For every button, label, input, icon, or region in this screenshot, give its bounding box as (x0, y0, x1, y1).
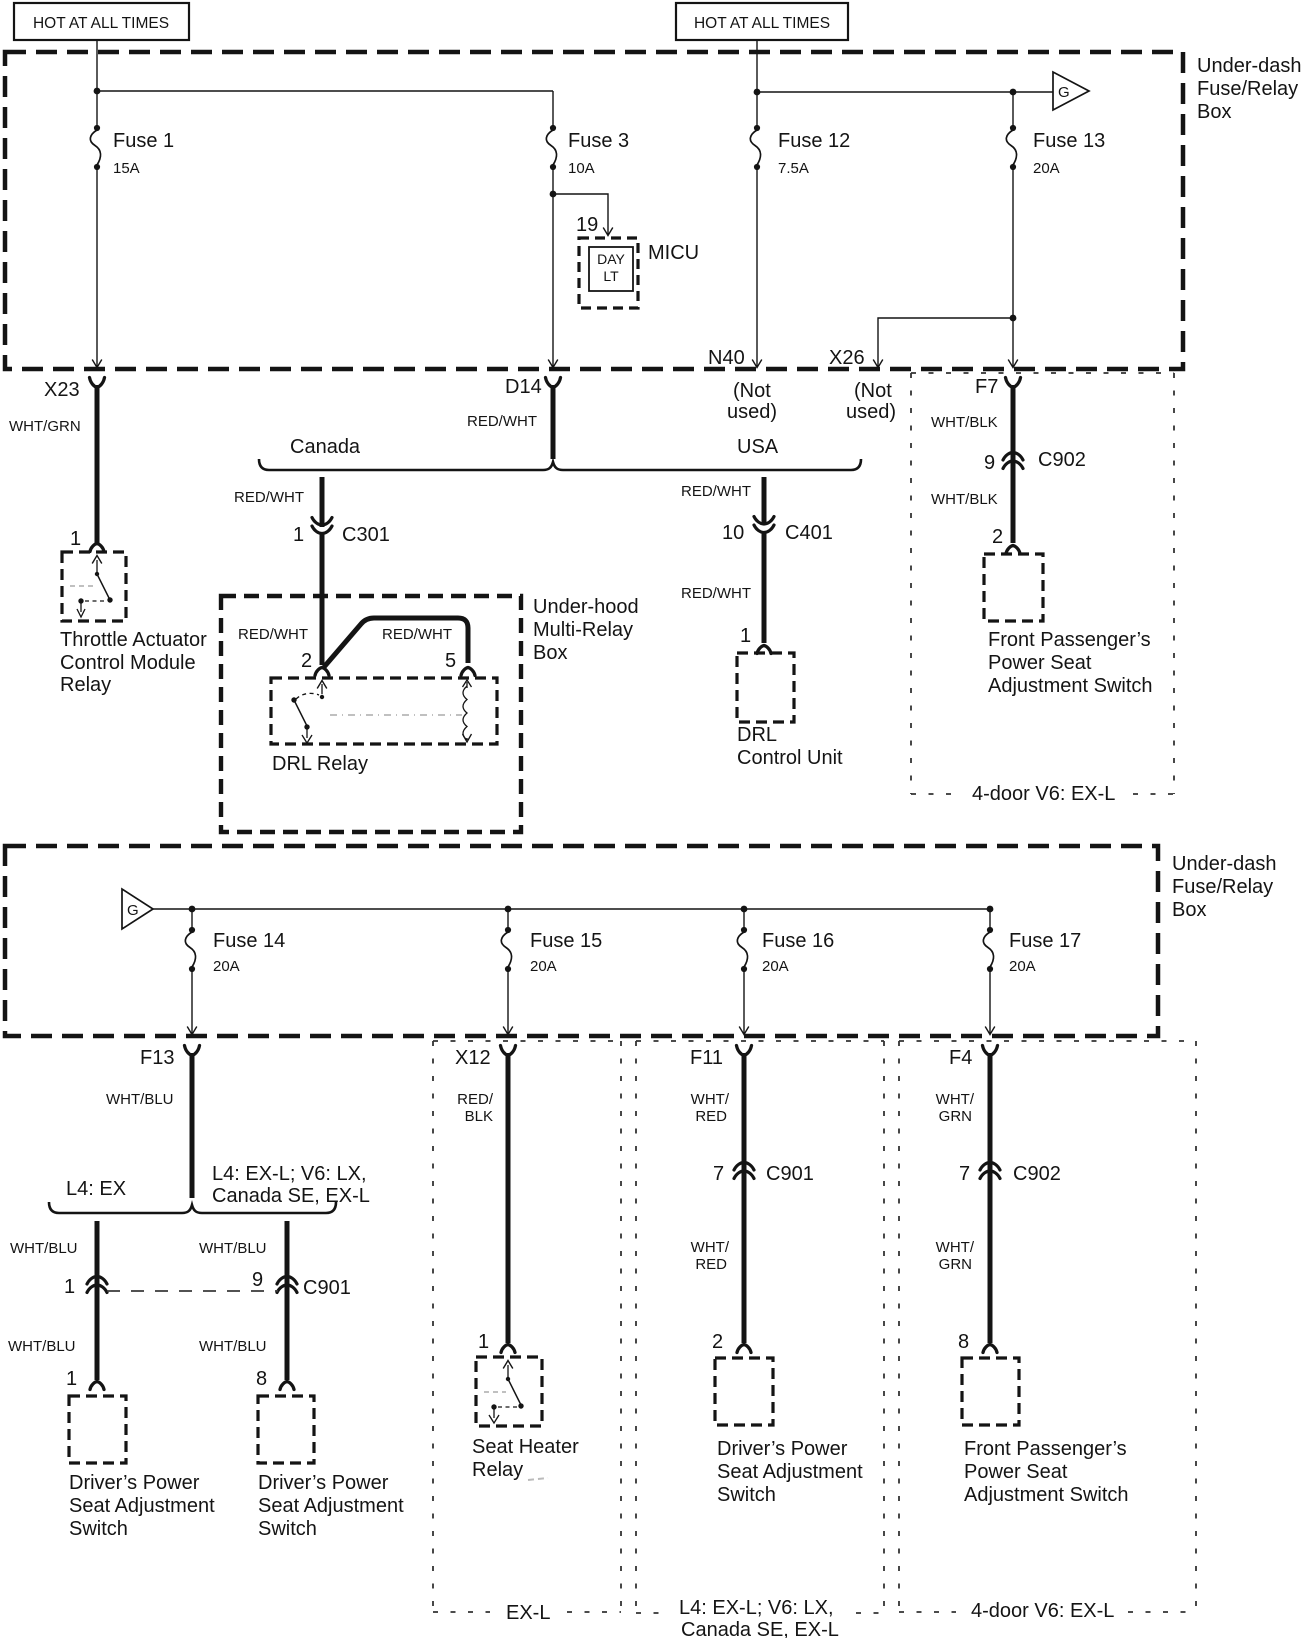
svg-text:Adjustment Switch: Adjustment Switch (988, 675, 1153, 697)
wire WHT/BLU to driver seat switch (left) (95, 1279, 100, 1380)
svg-text:Fuse 1: Fuse 1 (113, 130, 174, 152)
wire WHT/RED to driver seat switch (742, 1165, 747, 1343)
svg-text:WHT/BLU: WHT/BLU (199, 1338, 267, 1355)
fuse Fuse 1 15A (90, 125, 174, 177)
svg-text:19: 19 (576, 214, 598, 236)
svg-text:Canada SE, EX-L: Canada SE, EX-L (681, 1619, 839, 1638)
svg-text:Relay: Relay (472, 1459, 523, 1481)
variant box 4-door V6: EX-L (top right) (911, 373, 1174, 794)
wire jumper pin2 to pin5 (324, 618, 468, 667)
svg-text:Fuse 15: Fuse 15 (530, 930, 602, 952)
svg-text:WHT/BLU: WHT/BLU (8, 1338, 76, 1355)
svg-text:L4: EX-L; V6: LX,: L4: EX-L; V6: LX, (212, 1163, 367, 1185)
svg-text:(Not: (Not (854, 380, 892, 402)
Driver's Power Seat Adjustment Switch box (middle) (258, 1396, 314, 1463)
svg-text:10: 10 (722, 522, 744, 544)
svg-text:DRL: DRL (737, 724, 777, 746)
DRL Control Unit box (737, 653, 794, 722)
wire branch to MICU pin 19 (553, 194, 608, 229)
junction dots (189, 906, 196, 913)
svg-text:7: 7 (959, 1163, 970, 1185)
wire below Fuse 16 (743, 969, 745, 1034)
svg-text:WHT/: WHT/ (691, 1091, 730, 1108)
wire USA branch RED/WHT (762, 477, 767, 525)
svg-text:X23: X23 (44, 379, 80, 401)
svg-text:X12: X12 (455, 1047, 491, 1069)
svg-text:GRN: GRN (939, 1108, 972, 1125)
connector G triangle (box 2) (122, 889, 153, 929)
svg-text:C902: C902 (1038, 449, 1086, 471)
svg-text:RED: RED (695, 1256, 727, 1273)
svg-text:Seat Adjustment: Seat Adjustment (258, 1495, 404, 1517)
variant box L4: EX-L; V6: LX, Canada SE, EX-L (F11) (636, 1041, 884, 1613)
svg-text:Fuse 3: Fuse 3 (568, 130, 629, 152)
svg-text:20A: 20A (1033, 160, 1060, 177)
svg-text:Seat Adjustment: Seat Adjustment (69, 1495, 215, 1517)
wire WHT/GRN F4 to C902 (988, 1053, 993, 1167)
svg-text:8: 8 (958, 1331, 969, 1353)
svg-text:WHT/: WHT/ (691, 1239, 730, 1256)
svg-text:2: 2 (992, 526, 1003, 548)
svg-text:RED/WHT: RED/WHT (382, 626, 452, 643)
fuse Fuse 3 10A (546, 125, 629, 177)
junction dot on fuse3 wire (550, 191, 557, 198)
wire bus Fuse12 to G (757, 91, 1053, 93)
DRL relay switch symbol (291, 681, 462, 744)
node: HOT AT ALL TIMES (left) (14, 3, 189, 40)
svg-text:WHT/BLU: WHT/BLU (10, 1240, 78, 1257)
svg-text:Multi-Relay: Multi-Relay (533, 619, 633, 641)
svg-text:F4: F4 (949, 1047, 972, 1069)
svg-text:G: G (1058, 84, 1070, 101)
variant box EX-L (seat heater) (433, 1041, 621, 1612)
svg-text:15A: 15A (113, 160, 140, 177)
svg-text:used): used) (727, 401, 777, 423)
svg-text:F13: F13 (140, 1047, 174, 1069)
wire below Fuse 15 (507, 969, 509, 1034)
svg-text:1: 1 (740, 625, 751, 647)
svg-text:Canada: Canada (290, 436, 361, 458)
svg-text:BLK: BLK (465, 1108, 493, 1125)
stub wires to fuses (192, 909, 990, 930)
svg-text:WHT/: WHT/ (936, 1239, 975, 1256)
svg-text:F11: F11 (690, 1047, 723, 1069)
wire below Fuse 14 (191, 969, 193, 1034)
svg-text:Seat Adjustment: Seat Adjustment (717, 1461, 863, 1483)
svg-text:20A: 20A (1009, 958, 1036, 975)
svg-text:20A: 20A (762, 958, 789, 975)
Front Passenger's Power Seat Adjustment Switch box (top) (984, 554, 1043, 621)
DRL relay coil (463, 680, 472, 742)
svg-text:C301: C301 (342, 524, 390, 546)
svg-text:(Not: (Not (733, 380, 771, 402)
svg-text:20A: 20A (213, 958, 240, 975)
svg-text:Box: Box (533, 642, 567, 664)
svg-text:GRN: GRN (939, 1256, 972, 1273)
svg-text:4-door V6: EX-L: 4-door V6: EX-L (972, 783, 1115, 805)
seat heater relay switch symbol (484, 1361, 524, 1424)
Throttle relay label (60, 629, 207, 696)
svg-text:4-door V6: EX-L: 4-door V6: EX-L (971, 1600, 1114, 1622)
svg-text:2: 2 (712, 1331, 723, 1353)
MICU DAY LT box (579, 238, 638, 308)
svg-text:Front Passenger’s: Front Passenger’s (964, 1438, 1127, 1460)
svg-text:HOT AT ALL TIMES: HOT AT ALL TIMES (33, 15, 169, 32)
svg-text:1: 1 (293, 524, 304, 546)
DRL Control Unit label (737, 724, 843, 769)
fuse Fuse 16 20A (737, 927, 834, 975)
svg-text:Seat Heater: Seat Heater (472, 1436, 579, 1458)
svg-text:Fuse/Relay: Fuse/Relay (1197, 78, 1298, 100)
fuse Fuse 15 20A (501, 927, 602, 975)
svg-text:Under-dash: Under-dash (1172, 853, 1277, 875)
svg-text:USA: USA (737, 436, 779, 458)
wire bus G to Fuse 17 (153, 908, 990, 910)
svg-text:Switch: Switch (717, 1484, 776, 1506)
wire left branch WHT/BLU (95, 1221, 100, 1280)
wire branch to X26 (878, 318, 1013, 366)
wire bus Fuse1 to Fuse3 (97, 90, 553, 92)
svg-text:7: 7 (713, 1163, 724, 1185)
Front Passenger's Power Seat Adjustment Switch box (bottom) (962, 1358, 1019, 1425)
svg-text:EX-L: EX-L (506, 1602, 550, 1624)
wire RED/BLK X12 to seat heater relay (506, 1053, 511, 1343)
svg-text:RED/WHT: RED/WHT (681, 585, 751, 602)
svg-text:Power Seat: Power Seat (988, 652, 1092, 674)
svg-text:Box: Box (1172, 899, 1206, 921)
split brace below F13 (49, 1202, 336, 1213)
svg-text:G: G (127, 902, 139, 919)
Under-hood Multi-Relay Box border (221, 596, 521, 832)
wire from HOT box 2 to fuse box (756, 40, 758, 128)
svg-text:Under-dash: Under-dash (1197, 55, 1302, 77)
Seat Heater Relay box (476, 1357, 542, 1426)
svg-text:Switch: Switch (69, 1518, 128, 1540)
svg-text:WHT/: WHT/ (936, 1091, 975, 1108)
wire below Fuse 17 (989, 969, 991, 1034)
svg-text:1: 1 (70, 528, 81, 550)
svg-text:1: 1 (478, 1331, 489, 1353)
svg-text:WHT/BLU: WHT/BLU (106, 1091, 174, 1108)
smudge artifact (528, 1478, 548, 1480)
wire WHT/BLU to driver seat switch (right) (285, 1279, 290, 1380)
variant box 4-door V6: EX-L (F4) (899, 1041, 1196, 1612)
svg-text:LT: LT (603, 268, 619, 284)
wire WHT/GRN to front passenger seat switch (988, 1165, 993, 1343)
svg-text:Front Passenger’s: Front Passenger’s (988, 629, 1151, 651)
svg-text:used): used) (846, 401, 896, 423)
wire WHT/BLK to seat switch (1011, 455, 1016, 543)
wire WHT/BLK F7 to C902 (1011, 385, 1016, 459)
svg-text:Under-hood: Under-hood (533, 596, 639, 618)
svg-text:7.5A: 7.5A (778, 160, 809, 177)
fuse Fuse 13 20A (1006, 125, 1105, 177)
wire RED/WHT to DRL control unit (762, 533, 767, 643)
svg-text:WHT/BLK: WHT/BLK (931, 491, 998, 508)
wire below Fuse 13 (1012, 167, 1014, 367)
wire RED/WHT from D14 (551, 385, 556, 459)
DRL Relay box (271, 678, 497, 744)
throttle relay switch symbol (70, 556, 113, 618)
svg-text:9: 9 (252, 1269, 263, 1291)
svg-text:RED/: RED/ (457, 1091, 494, 1108)
svg-text:RED/WHT: RED/WHT (234, 489, 304, 506)
junction dot (94, 88, 101, 95)
wire Canada branch RED/WHT (320, 477, 325, 527)
svg-text:DAY: DAY (597, 251, 625, 267)
svg-text:HOT AT ALL TIMES: HOT AT ALL TIMES (694, 15, 830, 32)
wire below Fuse 1 (96, 167, 98, 367)
wire from HOT box to fuse box (96, 40, 98, 128)
svg-text:Control Module: Control Module (60, 652, 196, 674)
svg-text:Power Seat: Power Seat (964, 1461, 1068, 1483)
svg-text:WHT/BLU: WHT/BLU (199, 1240, 267, 1257)
svg-text:Driver’s Power: Driver’s Power (258, 1472, 389, 1494)
svg-text:Throttle Actuator: Throttle Actuator (60, 629, 207, 651)
svg-text:1: 1 (64, 1276, 75, 1298)
svg-text:RED/WHT: RED/WHT (467, 413, 537, 430)
node L4: EX-L; V6: LX, Canada SE, EX-L (212, 1163, 370, 1207)
junction dot (1010, 89, 1017, 96)
connector G triangle (1053, 72, 1089, 110)
svg-text:5: 5 (445, 650, 456, 672)
svg-text:10A: 10A (568, 160, 595, 177)
svg-text:F7: F7 (975, 376, 998, 398)
C901 connector link (dashed) (107, 1290, 278, 1292)
svg-text:L4: EX-L; V6: LX,: L4: EX-L; V6: LX, (679, 1597, 834, 1619)
svg-text:20A: 20A (530, 958, 557, 975)
svg-text:RED/WHT: RED/WHT (681, 483, 751, 500)
split brace Canada / USA (259, 459, 861, 470)
svg-text:C902: C902 (1013, 1163, 1061, 1185)
svg-text:Fuse 14: Fuse 14 (213, 930, 285, 952)
svg-text:Relay: Relay (60, 674, 111, 696)
svg-text:L4: EX: L4: EX (66, 1178, 126, 1200)
svg-text:Fuse 17: Fuse 17 (1009, 930, 1081, 952)
svg-text:C901: C901 (766, 1163, 814, 1185)
node: HOT AT ALL TIMES (right) (676, 3, 848, 40)
svg-text:Switch: Switch (258, 1518, 317, 1540)
svg-text:8: 8 (256, 1368, 267, 1390)
fuse Fuse 17 20A (983, 927, 1081, 975)
Front Passenger seat switch label (988, 629, 1153, 697)
Seat Heater Relay label (472, 1436, 579, 1481)
svg-text:C401: C401 (785, 522, 833, 544)
Driver's Power Seat Adjustment Switch box (left) (69, 1396, 126, 1463)
svg-text:Adjustment Switch: Adjustment Switch (964, 1484, 1129, 1506)
svg-text:Fuse/Relay: Fuse/Relay (1172, 876, 1273, 898)
svg-text:Driver’s Power: Driver’s Power (717, 1438, 848, 1460)
wire right branch WHT/BLU (285, 1221, 290, 1280)
svg-text:Driver’s Power: Driver’s Power (69, 1472, 200, 1494)
svg-text:C901: C901 (303, 1277, 351, 1299)
junction dot (754, 89, 761, 96)
wire WHT/RED F11 to C901 (742, 1053, 747, 1167)
svg-text:Box: Box (1197, 101, 1231, 123)
wire below Fuse 12 (756, 167, 758, 367)
svg-text:2: 2 (301, 650, 312, 672)
svg-text:Fuse 13: Fuse 13 (1033, 130, 1105, 152)
svg-text:RED: RED (695, 1108, 727, 1125)
svg-text:WHT/BLK: WHT/BLK (931, 414, 998, 431)
wire WHT/BLU F13 (190, 1053, 195, 1198)
wire RED/WHT into multi-relay box (320, 534, 325, 665)
svg-text:Control Unit: Control Unit (737, 747, 843, 769)
svg-text:1: 1 (66, 1368, 77, 1390)
Under-dash Fuse/Relay Box (top) border (5, 52, 1183, 369)
svg-text:Canada SE, EX-L: Canada SE, EX-L (212, 1185, 370, 1207)
junction dot X26 branch (1010, 315, 1017, 322)
fuse Fuse 14 20A (185, 927, 285, 975)
Throttle Actuator Control Module Relay box (62, 552, 126, 621)
Driver's Power Seat Adjustment Switch box (right) (715, 1358, 773, 1425)
svg-text:X26: X26 (829, 347, 865, 369)
svg-text:MICU: MICU (648, 242, 699, 264)
svg-text:DRL Relay: DRL Relay (272, 753, 368, 775)
fuse Fuse 12 7.5A (750, 125, 850, 177)
svg-text:D14: D14 (505, 376, 542, 398)
svg-text:WHT/GRN: WHT/GRN (9, 418, 81, 435)
svg-text:Fuse 16: Fuse 16 (762, 930, 834, 952)
svg-text:N40: N40 (708, 347, 745, 369)
wire WHT/GRN X23 to relay (95, 385, 100, 543)
wire below Fuse 3 (552, 167, 554, 367)
svg-text:RED/WHT: RED/WHT (238, 626, 308, 643)
svg-text:9: 9 (984, 452, 995, 474)
Under-dash Fuse/Relay Box (bottom) border (5, 846, 1158, 1036)
svg-text:Fuse 12: Fuse 12 (778, 130, 850, 152)
